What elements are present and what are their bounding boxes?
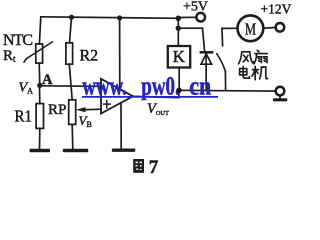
svg-text:7: 7 <box>149 157 159 178</box>
svg-text:RP: RP <box>48 102 66 118</box>
svg-text:NTC: NTC <box>3 32 33 49</box>
svg-text:M: M <box>245 20 256 39</box>
svg-text:pw0.: pw0. <box>141 71 180 101</box>
svg-text:cn: cn <box>189 71 211 101</box>
svg-text:R1: R1 <box>15 107 33 126</box>
svg-text:+12V: +12V <box>261 2 292 17</box>
svg-text:+5V: +5V <box>183 0 208 14</box>
svg-text:A: A <box>42 72 53 88</box>
svg-text:R2: R2 <box>80 48 99 65</box>
svg-text:K: K <box>173 47 186 66</box>
svg-text:www.: www. <box>82 71 127 101</box>
